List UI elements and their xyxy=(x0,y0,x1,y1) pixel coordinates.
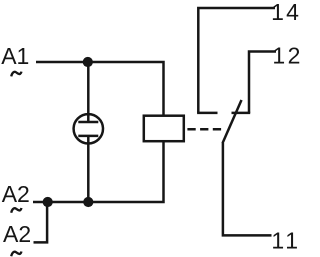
junction node lamp branch / A2 xyxy=(83,197,93,207)
svg-text:A1: A1 xyxy=(1,43,29,69)
mechanical linkage (dashed) coil to contact xyxy=(187,128,222,131)
AC symbol (~) under first A2 xyxy=(11,208,21,213)
svg-text:11: 11 xyxy=(271,227,300,253)
junction node A2-2 join xyxy=(43,197,53,207)
NC contact stub 12 xyxy=(232,112,251,115)
svg-text:A2: A2 xyxy=(3,221,31,247)
relay coil xyxy=(144,116,184,142)
wire 12 down to contact xyxy=(249,52,276,113)
wire lamp branch bottom xyxy=(87,136,90,202)
glow lamp indicator xyxy=(74,114,103,143)
AC symbol (~) under second A2 xyxy=(11,252,21,257)
changeover contact blade xyxy=(223,100,242,143)
wire 14 down to contact xyxy=(198,8,275,113)
wire lamp branch top xyxy=(87,62,90,122)
AC symbol (~) under A1 xyxy=(11,72,21,77)
svg-text:14: 14 xyxy=(271,0,300,25)
svg-text:12: 12 xyxy=(272,43,300,69)
wire A1 to coil top xyxy=(36,62,164,116)
junction node A1 / lamp branch xyxy=(83,57,93,67)
NO contact stub 14 xyxy=(197,112,217,115)
svg-text:A2: A2 xyxy=(2,181,30,207)
wire common to terminal 11 xyxy=(223,143,272,235)
wire coil bottom to A2 xyxy=(33,142,164,203)
wire second A2 lead xyxy=(34,202,48,242)
